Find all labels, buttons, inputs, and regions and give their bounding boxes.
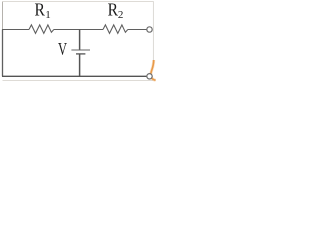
- svg-text:1: 1: [45, 9, 51, 21]
- wire: top rail right segment: [128, 29, 147, 31]
- svg-text:V: V: [58, 39, 67, 59]
- orange cropped annotation arc at right edge: [151, 60, 156, 80]
- battery V bottom lead: [79, 54, 81, 76]
- terminal: bottom-right open circle: [147, 74, 152, 79]
- wire: top rail left segment: [2, 29, 29, 31]
- frame border (light): [3, 2, 154, 81]
- wire: left vertical: [2, 30, 4, 77]
- resistor R1: [29, 25, 54, 34]
- wire: top rail middle segment: [54, 29, 103, 31]
- resistor R2: [103, 25, 128, 34]
- svg-text:2: 2: [118, 9, 124, 21]
- terminal: top-right open circle: [147, 27, 152, 32]
- svg-text:R: R: [108, 0, 118, 20]
- battery short plate: [76, 53, 85, 55]
- svg-text:R: R: [35, 0, 45, 20]
- wire: bottom rail: [2, 75, 147, 77]
- frame border left upper segment: [2, 2, 4, 30]
- battery V top lead: [79, 30, 81, 50]
- battery long plate: [71, 49, 90, 51]
